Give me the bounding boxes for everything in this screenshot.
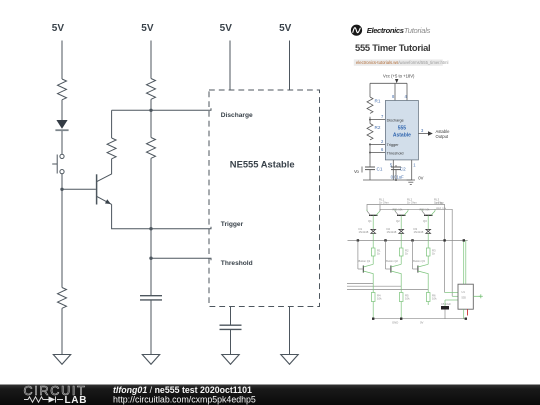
diode D3 (414, 227, 431, 241)
svg-text:Vcc (+5 to +18V): Vcc (+5 to +18V) (383, 74, 415, 79)
capacitor C2 bypass (220, 325, 242, 329)
svg-text:LAB: LAB (65, 395, 88, 405)
wire (61, 41, 63, 80)
CircuitLab logo squiggle (24, 396, 63, 402)
wire (61, 100, 63, 120)
wire output green probe (473, 294, 483, 298)
wire (150, 110, 152, 137)
wire threshold net (151, 258, 211, 260)
svg-text:1N4148: 1N4148 (359, 230, 369, 234)
wire left rail lower (369, 143, 371, 166)
node junction right 1 (443, 239, 445, 241)
wire threshold pin6 (370, 152, 385, 154)
wire (229, 41, 231, 91)
svg-text:0V: 0V (418, 175, 423, 180)
svg-text:C1: C1 (377, 166, 383, 171)
svg-text:RB2 10k: RB2 10k (420, 208, 431, 212)
simulator screenshot schematic (347, 198, 483, 325)
resistor R5 collector (107, 138, 116, 159)
svg-text:1N4148: 1N4148 (414, 230, 424, 234)
chip U1 (458, 284, 473, 309)
resistor R2 (147, 79, 156, 100)
transistor Q1 (97, 174, 112, 204)
svg-text:http://circuitlab.com/cxmp5pk4: http://circuitlab.com/cxmp5pk4edhp5 (113, 395, 256, 405)
wire C2 top (395, 165, 397, 167)
NE555 Astable subcircuit box (209, 90, 320, 307)
node dot (369, 119, 371, 121)
wire C1 top (369, 166, 371, 167)
CircuitLab logo diode (49, 396, 56, 402)
capacitor C1 timing (140, 296, 162, 300)
svg-text:Threshold: Threshold (387, 151, 404, 155)
wire input line 2 (347, 285, 401, 287)
svg-text:Discharge: Discharge (387, 118, 404, 122)
wire Vo tap (361, 167, 363, 173)
wire red (467, 309, 469, 315)
svg-text:GND: GND (392, 321, 398, 325)
wire (61, 308, 63, 354)
tutorial diagram (354, 74, 450, 185)
node junction bus 3 (411, 239, 413, 241)
wire (150, 158, 152, 228)
node junction bottom 2 (400, 318, 402, 320)
svg-text:Electronics: Electronics (367, 26, 404, 35)
wire bottom rail (373, 318, 466, 320)
wire collector lead (97, 159, 112, 182)
wire bottom rail (363, 179, 412, 181)
wire (150, 99, 152, 110)
resistor R2 (367, 124, 373, 140)
wire pin4 (406, 83, 408, 100)
svg-text:Vo: Vo (354, 169, 360, 174)
wire trigger pin2 (370, 144, 385, 146)
wire right pair green (464, 240, 466, 284)
node dot C2 (395, 179, 397, 181)
wire (289, 41, 291, 91)
node junction bus 1 (357, 239, 359, 241)
wire input line 3 (347, 289, 428, 291)
svg-text:Trigger: Trigger (387, 143, 400, 147)
svg-text:Button Q3: Button Q3 (413, 259, 425, 263)
node junction threshold (149, 257, 152, 260)
wire discharge net (112, 108, 211, 110)
wire (61, 174, 63, 190)
wire (61, 189, 63, 287)
svg-text:1k Ohm: 1k Ohm (379, 201, 389, 205)
wire input line 1 (347, 283, 373, 285)
capacitor C2 (391, 167, 401, 170)
wire (61, 131, 63, 154)
wire pin8 (394, 83, 396, 100)
svg-text:1: 1 (413, 162, 416, 167)
Vcc arrow (395, 79, 398, 83)
svg-text:10k: 10k (377, 297, 382, 301)
svg-text:Astable: Astable (393, 133, 411, 139)
svg-text:Discharge: Discharge (221, 112, 253, 119)
wire (369, 117, 371, 124)
svg-text:0.01uF: 0.01uF (391, 174, 404, 179)
svg-text:Button Q2: Button Q2 (386, 259, 398, 263)
ground (281, 355, 298, 365)
wire discharge pin7 (370, 119, 385, 121)
svg-text:10k: 10k (405, 297, 410, 301)
resistor RE1 (371, 284, 382, 319)
diode D1 (359, 227, 376, 241)
wire (230, 330, 232, 355)
node junction trigger (149, 227, 152, 230)
svg-text:C5 10uF: C5 10uF (441, 302, 451, 306)
wire (289, 307, 291, 355)
svg-text:1k Ohm: 1k Ohm (407, 201, 417, 205)
svg-text:3: 3 (421, 128, 424, 133)
svg-text:Q2: Q2 (396, 219, 400, 223)
resistor RE2 (399, 286, 410, 318)
svg-text:RB3 10k: RB3 10k (436, 207, 447, 211)
svg-text:Tutorials: Tutorials (404, 26, 431, 35)
cell 1 (358, 240, 381, 283)
node junction bottom right (465, 318, 467, 320)
output arrow (428, 131, 433, 136)
resistor R1 (58, 79, 67, 100)
svg-text:5V: 5V (141, 23, 154, 34)
ground (222, 355, 239, 365)
node junction bus 2 (384, 239, 386, 241)
svg-text:5V: 5V (279, 23, 292, 34)
wire top rail (370, 82, 407, 84)
svg-text:RB1 10k: RB1 10k (393, 208, 404, 212)
svg-text:6: 6 (381, 147, 384, 152)
svg-text:C2: C2 (400, 166, 406, 171)
svg-text:R7 1k: R7 1k (436, 201, 444, 205)
svg-text:10k: 10k (432, 297, 437, 301)
wire (150, 258, 152, 295)
transistor Q1 pnp (367, 211, 380, 229)
svg-text:8: 8 (392, 94, 395, 99)
node junction bottom 1 (372, 318, 374, 320)
svg-text:NE555 Astable: NE555 Astable (230, 159, 295, 170)
svg-text:555: 555 (462, 296, 467, 300)
wire pin5 (392, 160, 394, 180)
wire base (62, 188, 96, 190)
wire C1 bottom (369, 170, 371, 180)
wire (230, 307, 232, 325)
wire right links to chip (445, 293, 458, 301)
svg-text:5V: 5V (220, 23, 233, 34)
resistor RE3 (426, 290, 437, 306)
wire (111, 110, 113, 138)
wire pin1 (411, 160, 413, 180)
ET logo mark (351, 25, 362, 36)
Electronics Tutorials screenshot (351, 25, 450, 185)
wire (150, 301, 152, 355)
wire top rail 2 (380, 209, 452, 296)
node junction discharge (149, 109, 152, 112)
wire (150, 41, 152, 79)
node junction base (60, 188, 63, 191)
svg-text:electronics-tutorials.ws/wavef: electronics-tutorials.ws/waveforms/555_t… (356, 60, 448, 65)
transistor Q2 pnp (367, 205, 408, 229)
capacitor small black (441, 300, 451, 319)
wire output pin3 (418, 133, 428, 135)
svg-text:Output: Output (436, 134, 449, 139)
svg-text:Trigger: Trigger (221, 221, 244, 228)
svg-text:Q1: Q1 (368, 219, 372, 223)
url bar (354, 59, 443, 65)
cell 2 (386, 240, 410, 286)
capacitor C1 (365, 167, 375, 170)
ground 0V (407, 180, 415, 184)
wire top rail 1 (367, 205, 445, 293)
svg-text:5V: 5V (52, 23, 65, 34)
svg-text:R1: R1 (375, 98, 381, 103)
transistor Q3 pnp (422, 210, 435, 230)
node dot (369, 152, 371, 154)
wire left rail upper (369, 83, 371, 97)
svg-text:tlfong01 / ne555 test 2020oct1: tlfong01 / ne555 test 2020oct1101 (113, 385, 252, 395)
ground (53, 355, 70, 365)
svg-text:Button Q1: Button Q1 (359, 259, 371, 263)
svg-text:1N4148: 1N4148 (387, 230, 397, 234)
svg-text:7: 7 (381, 114, 384, 119)
pushbutton switch SW1 (52, 154, 64, 173)
555 body (385, 101, 418, 160)
svg-text:Threshold: Threshold (221, 260, 253, 267)
resistor R1 (367, 97, 373, 113)
node dot (369, 144, 371, 146)
wire (150, 229, 152, 259)
wire bus (348, 239, 468, 241)
diode D2 (387, 227, 404, 241)
cell 3 (413, 240, 437, 289)
diode D1 (55, 120, 68, 130)
svg-text:0V: 0V (420, 321, 424, 325)
svg-text:U1: U1 (462, 290, 466, 294)
footer bar (0, 385, 540, 405)
svg-text:555: 555 (398, 125, 407, 131)
svg-text:2: 2 (381, 139, 384, 144)
svg-text:555 Timer Tutorial: 555 Timer Tutorial (355, 42, 430, 53)
wire emitter to trigger net (112, 204, 211, 228)
wire C2 bottom (395, 170, 397, 180)
resistor R3 (147, 138, 156, 159)
svg-text:R2: R2 (375, 125, 381, 130)
svg-text:Q3: Q3 (423, 219, 427, 223)
ground (142, 355, 159, 365)
resistor R4 pulldown (58, 288, 67, 309)
wire chip bottom green (463, 309, 465, 319)
node junction right 2 (463, 239, 465, 241)
